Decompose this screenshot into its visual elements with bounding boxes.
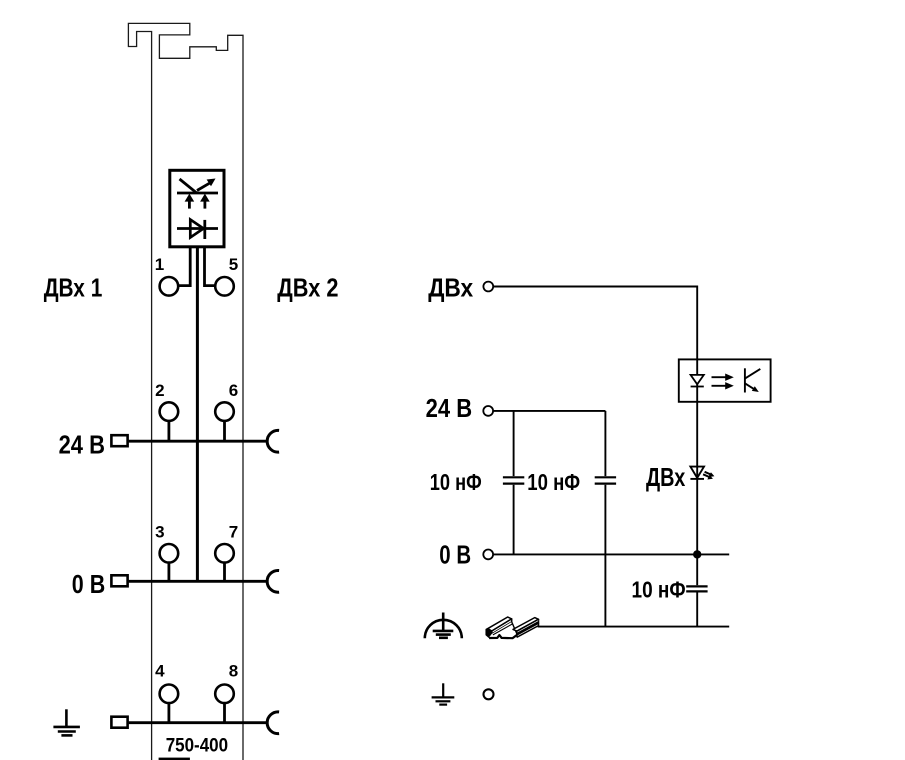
wire 24V row — [129, 440, 268, 443]
wire DVx to optocoupler — [494, 287, 698, 360]
connector 24V — [111, 435, 127, 446]
wire rail bus — [538, 626, 730, 628]
capacitor C2 wire top — [604, 411, 606, 476]
terminal 5 — [215, 277, 234, 296]
svg-text:8: 8 — [229, 661, 238, 680]
wire stub terminal 4 — [167, 703, 170, 723]
svg-text:ДВх 1: ДВх 1 — [44, 273, 103, 303]
ground symbol module — [53, 709, 80, 735]
svg-text:7: 7 — [229, 522, 238, 541]
terminal 3 — [160, 544, 179, 563]
diode D1 — [177, 220, 218, 240]
wire 0V right — [494, 553, 730, 555]
connector 0V — [111, 575, 127, 586]
optocoupler light arrow bottom — [712, 382, 734, 389]
capacitor C1 wire top — [513, 411, 515, 476]
svg-text:4: 4 — [155, 661, 165, 680]
svg-text:10 нФ: 10 нФ — [632, 576, 686, 602]
wire stub terminal 2 — [167, 421, 170, 441]
optocoupler LED — [691, 375, 704, 387]
module foot — [159, 758, 190, 760]
capacitor C3 wire bottom — [696, 593, 698, 627]
wire stub terminal 6 — [223, 421, 226, 441]
terminal 6 — [215, 402, 234, 421]
terminal 1 — [160, 277, 179, 296]
wire earth row — [129, 721, 268, 724]
LED D2 emission arrow 2 — [703, 474, 713, 479]
surge suppressor arrow — [197, 179, 216, 191]
terminal 4 — [160, 685, 179, 704]
LED D2 — [690, 467, 704, 479]
connector earth — [111, 717, 127, 728]
terminal 2 — [160, 402, 179, 421]
capacitor C2 wire bottom — [604, 485, 606, 627]
svg-text:10 нФ: 10 нФ — [527, 469, 580, 495]
capacitor C3 — [686, 586, 707, 591]
terminal 0V right — [483, 550, 493, 560]
terminal 8 — [215, 685, 234, 704]
junction node — [693, 550, 701, 558]
optocoupler box U2 — [679, 359, 771, 401]
module outline 750-400 — [128, 23, 243, 760]
left flange top face — [488, 617, 512, 631]
svg-text:24 В: 24 В — [59, 430, 105, 460]
surge suppressor diagonal — [180, 179, 197, 193]
svg-text:ДВх 2: ДВх 2 — [277, 272, 338, 302]
wire stub terminal 8 — [223, 703, 226, 723]
up arrow right — [200, 194, 210, 209]
terminal DVx right — [483, 282, 493, 292]
wire stub terminal 7 — [223, 563, 226, 582]
DIN rail icon — [486, 617, 538, 638]
svg-text:6: 6 — [229, 381, 238, 400]
up arrow left — [185, 194, 195, 209]
capacitor C3 wire top — [696, 554, 698, 585]
protection circuit box U1 — [170, 170, 224, 247]
svg-text:1: 1 — [155, 255, 164, 274]
capacitor C1 — [503, 477, 524, 483]
right flange lower lip — [517, 623, 539, 637]
channel step edge — [512, 622, 517, 634]
right flange highlight — [517, 621, 538, 632]
svg-text:0 В: 0 В — [72, 569, 105, 599]
capacitor C2 — [595, 477, 616, 483]
svg-text:ДВх: ДВх — [646, 462, 686, 492]
optocoupler phototransistor Q1 — [745, 368, 760, 392]
socket arc earth — [267, 712, 279, 734]
wire box to terminal 1 — [178, 247, 190, 286]
svg-text:ДВх: ДВх — [428, 272, 473, 302]
left end cap — [486, 629, 492, 638]
surge suppressor symbol line — [177, 192, 218, 195]
wire through optocoupler down to junction — [696, 359, 698, 554]
right flange front face shaded — [517, 619, 539, 635]
capacitor C1 wire bottom — [513, 485, 515, 555]
socket arc 24V — [267, 430, 279, 452]
terminal 7 — [215, 544, 234, 563]
wire stub terminal 3 — [167, 563, 170, 582]
ground symbol bottom — [432, 683, 455, 704]
terminal 24V right — [483, 406, 493, 416]
svg-text:3: 3 — [155, 522, 164, 541]
socket arc 0V — [267, 570, 279, 592]
svg-text:0 В: 0 В — [439, 539, 471, 569]
channel floor — [489, 622, 517, 638]
wire 0V row — [129, 580, 268, 583]
wire 24V right — [494, 410, 606, 412]
channel floor back edge — [493, 624, 513, 635]
svg-text:2: 2 — [155, 381, 164, 400]
optocoupler light arrow top — [712, 374, 734, 381]
noiseless earth symbol — [425, 613, 462, 639]
svg-text:5: 5 — [229, 255, 238, 274]
LED D2 emission arrow 1 — [705, 472, 715, 477]
wire center bus — [196, 247, 199, 582]
svg-text:24 В: 24 В — [426, 393, 473, 423]
bottom base band — [489, 635, 517, 639]
right flange top face — [513, 618, 539, 632]
left flange front face — [492, 619, 512, 634]
terminal bottom — [484, 689, 494, 699]
svg-text:10 нФ: 10 нФ — [430, 469, 482, 495]
wire box to terminal 5 — [205, 247, 216, 286]
svg-text:750-400: 750-400 — [166, 735, 229, 757]
